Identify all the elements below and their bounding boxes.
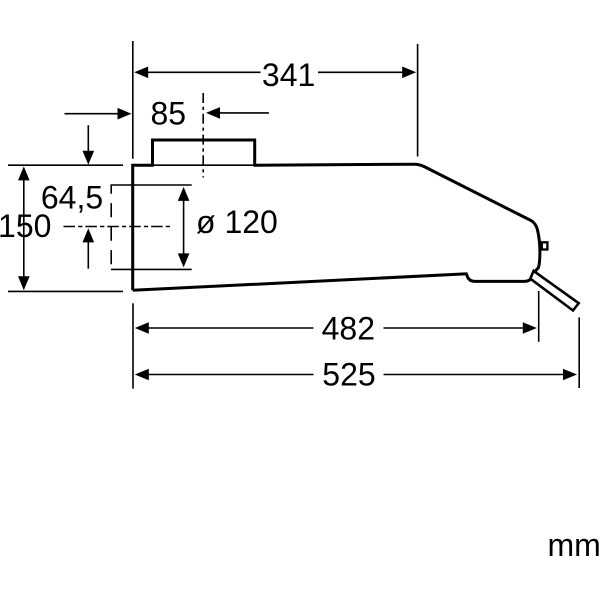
svg-text:mm: mm <box>548 527 600 563</box>
svg-text:341: 341 <box>262 57 315 93</box>
svg-text:482: 482 <box>322 311 375 347</box>
svg-text:150: 150 <box>0 208 51 244</box>
svg-text:85: 85 <box>151 96 187 132</box>
svg-text:ø 120: ø 120 <box>196 204 278 240</box>
svg-text:525: 525 <box>322 356 375 392</box>
